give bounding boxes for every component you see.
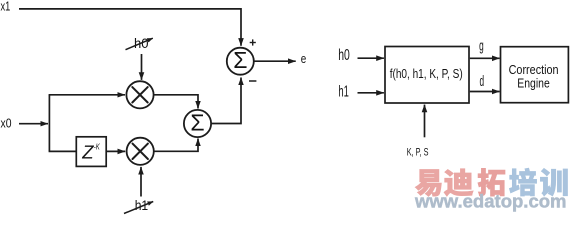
multiplier M2 (bottom) xyxy=(127,138,154,165)
watermark CJK glyphs placeholder xyxy=(415,168,567,196)
svg-text:-K: -K xyxy=(94,143,100,152)
watermark char 培 xyxy=(509,168,536,196)
svg-text:d: d xyxy=(480,74,485,90)
svg-text:www.edatop.com: www.edatop.com xyxy=(414,190,567,211)
wire multiplier M2 to summer S2 xyxy=(154,139,198,152)
svg-text:Σ: Σ xyxy=(190,109,204,135)
label h1 (vector notation with slash arrow) xyxy=(124,198,153,214)
wire junction to multiplier M1 xyxy=(49,94,125,96)
plus sign at summer S1 xyxy=(250,39,256,45)
wire h1 to multiplier M2 xyxy=(140,167,142,197)
wire K,P,S to f block xyxy=(424,105,426,138)
block f(h0, h1, K, P, S) xyxy=(385,47,469,104)
delay block Z^-K xyxy=(76,137,106,167)
svg-text:Correction: Correction xyxy=(509,62,559,77)
minus sign at summer S1 xyxy=(249,80,256,82)
svg-text:x1: x1 xyxy=(1,0,11,14)
wire x1 to summer S1 top xyxy=(19,9,241,46)
svg-text:K, P, S: K, P, S xyxy=(407,146,429,158)
summer S2 (bottom sigma node) xyxy=(184,109,211,137)
wire h1 to f block xyxy=(358,92,384,94)
block Correction Engine xyxy=(501,47,569,103)
wire summer S2 to summer S1 minus input xyxy=(211,78,241,124)
wire h0 to multiplier M1 xyxy=(141,54,143,80)
watermark char 拓 xyxy=(478,168,505,196)
wire x0 input arrow xyxy=(19,123,48,125)
wire multiplier M1 to summer S2 xyxy=(154,95,198,109)
wire junction to delay block xyxy=(49,150,77,152)
svg-text:x0: x0 xyxy=(1,116,12,131)
svg-text:e: e xyxy=(301,51,307,66)
multiplier M1 (top) xyxy=(126,81,153,108)
svg-text:Σ: Σ xyxy=(233,47,247,73)
wire delay block to multiplier M2 xyxy=(106,150,125,152)
watermark char 迪 xyxy=(444,169,473,196)
wire g: f block to correction engine xyxy=(470,57,500,59)
svg-text:h1: h1 xyxy=(135,198,149,213)
svg-text:g: g xyxy=(479,38,484,54)
summer S1 (top sigma node) xyxy=(227,47,254,75)
wire summer S1 to e xyxy=(255,60,296,62)
svg-text:f(h0, h1, K, P, S): f(h0, h1, K, P, S) xyxy=(390,67,463,81)
watermark char 易 xyxy=(415,170,441,197)
svg-text:Engine: Engine xyxy=(517,76,550,91)
wire h0 to f block xyxy=(358,57,384,59)
label h0 (vector notation with slash arrow) xyxy=(126,36,153,51)
svg-text:h0: h0 xyxy=(338,47,350,64)
watermark char 训 xyxy=(540,168,567,196)
svg-text:Z: Z xyxy=(81,142,94,163)
wire d: f block to correction engine xyxy=(470,91,500,93)
wire junction vertical xyxy=(48,95,50,152)
svg-text:h1: h1 xyxy=(338,84,349,101)
